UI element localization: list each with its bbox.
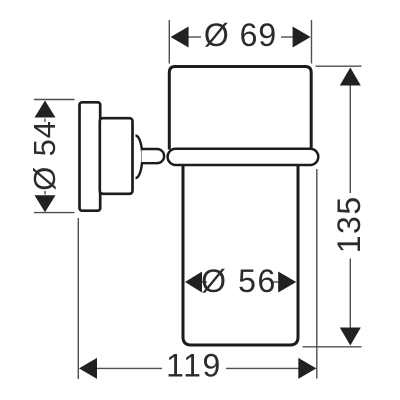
dim Ø56 left arrow [185, 272, 202, 293]
dim Ø69 line left segment [188, 36, 201, 38]
stem with ball end [142, 149, 165, 163]
dim Ø54 line top segment [44, 119, 46, 123]
dim Ø54 top arrow [35, 101, 56, 118]
dim 119 left arrow [79, 358, 97, 379]
dim 135 line lower segment [349, 259, 351, 328]
dim 135 top extension line [316, 65, 362, 67]
dim Ø69 line right segment [281, 36, 293, 38]
dim Ø69 right arrow [293, 27, 311, 48]
dim 119 left extension line [77, 218, 79, 379]
dome collar [136, 136, 143, 179]
holder ring arm [168, 149, 319, 165]
dim Ø56 line left segment [202, 281, 208, 283]
dim Ø56 right arrow [278, 272, 296, 293]
dim Ø54 label (rotated) [27, 120, 62, 190]
dim Ø56 line right segment [273, 281, 280, 283]
svg-text:Ø 56: Ø 56 [201, 263, 277, 299]
tumbler lower section (Ø56) [183, 165, 298, 345]
svg-text:Ø 54: Ø 54 [27, 120, 62, 190]
tumbler upper section (Ø69) [169, 67, 311, 150]
dim Ø54 bottom arrow [35, 195, 56, 212]
dim 135 bottom arrow [340, 328, 361, 346]
escutcheon body [100, 118, 133, 194]
dim 135 bottom extension line [303, 346, 362, 348]
dim Ø69 left extension line [168, 20, 170, 64]
dim 135 line upper segment [349, 85, 351, 193]
dim 119 line left segment [96, 367, 163, 369]
dim Ø69 right extension line [311, 20, 313, 64]
dim Ø54 line bottom segment [44, 191, 46, 195]
dim Ø69 left arrow [171, 27, 189, 48]
dim Ø54 bottom extension line [34, 212, 75, 214]
svg-text:119: 119 [166, 348, 222, 384]
dim 119 line right segment [226, 367, 300, 369]
svg-text:Ø 69: Ø 69 [204, 17, 277, 53]
wall plate [80, 102, 101, 210]
dim Ø54 top extension line [34, 99, 75, 101]
dim 119 right arrow [298, 358, 316, 379]
dim 119 right extension line [316, 169, 318, 379]
svg-text:135: 135 [331, 195, 367, 253]
dim 135 top arrow [340, 68, 361, 86]
dim 135 label (rotated) [331, 195, 367, 253]
